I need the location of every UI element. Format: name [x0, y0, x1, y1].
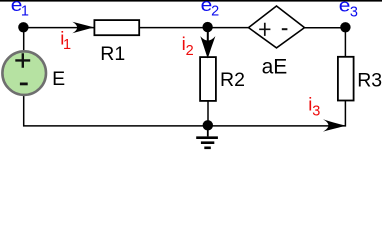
wire: e1 down to source E	[23, 28, 25, 52]
svg-text:R1: R1	[100, 43, 125, 65]
svg-text:R2: R2	[220, 69, 245, 91]
svg-text:3: 3	[312, 104, 320, 120]
arrowhead i1	[72, 22, 94, 34]
wire top: R1 to diamond left (through e2)	[140, 27, 250, 29]
node e2 dot	[202, 22, 212, 32]
wire: source E bottom, bottom rail, up to R3 bottom	[24, 95, 346, 126]
current label i1	[60, 28, 71, 54]
arrowhead i2	[200, 36, 215, 58]
svg-text:2: 2	[211, 4, 219, 20]
minus sign inside diamond	[282, 28, 288, 30]
current label i2	[182, 33, 194, 59]
resistor R1 box	[94, 20, 139, 35]
resistor R3 box	[338, 57, 354, 101]
node e1 dot	[18, 22, 28, 32]
svg-text:2: 2	[186, 43, 194, 59]
svg-text:e: e	[339, 0, 351, 16]
top border line	[0, 0, 382, 2]
svg-text:1: 1	[21, 3, 29, 19]
current label i3	[308, 94, 320, 120]
wire: e3 down to R3 top	[344, 28, 346, 57]
svg-text:aE: aE	[262, 55, 288, 78]
svg-text:3: 3	[350, 4, 358, 20]
svg-text:R3: R3	[357, 70, 382, 92]
svg-text:1: 1	[63, 37, 71, 53]
node label e1	[11, 0, 29, 19]
wire: R2 bottom to ground node	[207, 101, 209, 126]
wire: i2 arrow shaft from e2 down	[207, 28, 209, 47]
dependent source aE (diamond)	[249, 6, 305, 48]
plus sign inside diamond	[259, 23, 270, 36]
node e3 dot	[340, 22, 350, 32]
wire top: node e1 to R1	[24, 27, 94, 29]
svg-text:E: E	[52, 68, 65, 90]
wire top: diamond right to e3	[304, 27, 345, 29]
minus sign inside E	[20, 83, 28, 86]
ground	[196, 126, 218, 148]
node label e3	[339, 0, 358, 20]
node ground-junction dot	[203, 120, 213, 130]
voltage source E (circle)	[2, 51, 46, 95]
arrowhead i3	[323, 119, 346, 131]
node label e2	[201, 0, 220, 20]
resistor R2 box	[200, 57, 216, 101]
plus sign inside E	[15, 53, 30, 68]
